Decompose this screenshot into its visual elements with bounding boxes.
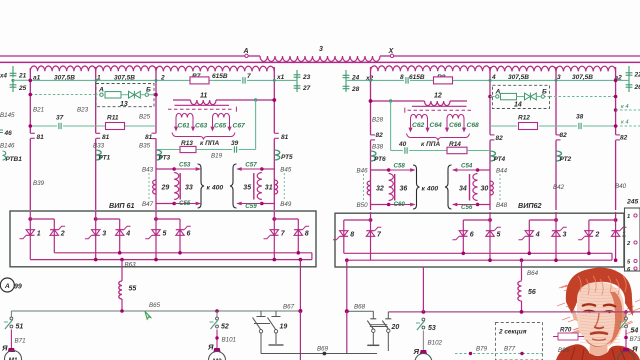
current transformer RT2 <box>556 151 561 161</box>
svg-text:к ППА: к ППА <box>200 140 219 147</box>
thyristor pair 5/6 (VIP61) <box>154 217 158 221</box>
svg-text:РТ1: РТ1 <box>99 155 111 162</box>
contact 81 on line 1 <box>96 132 101 134</box>
wire: drop to B63 <box>120 258 124 262</box>
svg-text:С66: С66 <box>449 122 462 129</box>
wire: snubber rail left half <box>30 79 190 81</box>
wire: section line 3 (RT2) <box>555 67 557 135</box>
contact 81 on line x1 <box>274 132 279 134</box>
wire: VIP61 anode rail <box>30 259 312 261</box>
svg-text:В102: В102 <box>428 340 443 347</box>
smoothing reactor 55 <box>121 280 123 283</box>
svg-text:8: 8 <box>350 232 354 239</box>
wire: 20 left contact to ground <box>372 332 374 344</box>
winding 2-x1 (secondary) <box>156 66 274 71</box>
svg-text:81: 81 <box>145 134 153 141</box>
svg-text:38: 38 <box>576 114 584 121</box>
thyristor 8 <box>294 229 302 231</box>
winding a1-1 (secondary) <box>30 66 95 71</box>
svg-text:81: 81 <box>37 134 45 141</box>
svg-text:615В: 615В <box>409 74 425 81</box>
svg-text:С65: С65 <box>214 123 227 130</box>
diode pair of element 13 <box>129 91 135 98</box>
current transformer RT4 <box>490 151 495 161</box>
thyristor 3 <box>92 230 100 236</box>
contact 82 on line 4 <box>490 134 495 136</box>
svg-text:В95: В95 <box>558 347 570 354</box>
wire: primary bus A-X (line 1) <box>0 55 245 57</box>
svg-text:R12: R12 <box>518 115 530 122</box>
smoothing reactor 56 <box>518 281 522 301</box>
group switch 20 <box>372 311 374 319</box>
node A 99 <box>0 278 14 292</box>
svg-text:к 4: к 4 <box>621 104 629 110</box>
transformer 12 core <box>412 105 467 107</box>
transformer 29/33 <box>153 180 156 194</box>
svg-text:35: 35 <box>243 184 251 191</box>
svg-text:В79: В79 <box>476 346 488 353</box>
switch 52 and motor M3 <box>216 311 218 317</box>
wire: 19 right contact to ground <box>275 333 277 344</box>
resistor of element 13 <box>105 92 121 98</box>
resistor of element 14 <box>501 93 517 99</box>
svg-text:82: 82 <box>620 135 628 142</box>
svg-text:39: 39 <box>231 140 239 147</box>
wire: drop to B68 <box>345 258 349 262</box>
svg-text:2: 2 <box>594 232 599 239</box>
svg-text:11: 11 <box>200 93 207 100</box>
current transformer RT6 <box>371 151 376 161</box>
svg-text:В46: В46 <box>357 168 369 175</box>
tap С53 <box>174 168 200 170</box>
svg-text:С54: С54 <box>461 163 473 170</box>
svg-text:В73: В73 <box>630 336 640 343</box>
svg-text:1: 1 <box>37 231 41 238</box>
wire: motor supply rail (left) <box>11 310 300 312</box>
svg-text:к 400: к 400 <box>207 185 224 192</box>
svg-text:В49: В49 <box>280 201 292 208</box>
svg-text:РТ4: РТ4 <box>494 156 506 163</box>
svg-text:Б: Б <box>542 88 547 95</box>
svg-text:53: 53 <box>428 325 436 332</box>
thyristor 6 <box>459 231 467 237</box>
VIP62 converter box <box>335 213 624 267</box>
svg-text:4: 4 <box>535 232 540 239</box>
switch 54 and motor <box>625 312 627 317</box>
svg-text:В47: В47 <box>142 201 154 208</box>
svg-text:4: 4 <box>125 231 130 238</box>
thyristor 2 <box>585 231 593 237</box>
switch 51 and motor M1 <box>10 311 12 317</box>
PPA windings left (C61..C67) <box>176 113 193 117</box>
svg-text:С56: С56 <box>461 204 473 211</box>
wire: 20 right contact down <box>387 332 389 351</box>
svg-text:23: 23 <box>302 74 311 81</box>
svg-text:В65: В65 <box>149 302 161 309</box>
wire: snubber rail right half <box>346 79 404 81</box>
svg-text:21: 21 <box>18 73 27 80</box>
terminal B of 14 <box>541 95 544 98</box>
svg-text:R70: R70 <box>560 327 572 334</box>
tap С57 <box>237 168 261 170</box>
svg-text:В68: В68 <box>354 304 366 311</box>
thyristor pair 5/6 (VIP62) <box>488 218 492 222</box>
svg-text:55: 55 <box>129 286 137 293</box>
thyristor 5 <box>152 230 160 236</box>
svg-text:82: 82 <box>496 135 504 142</box>
winding 4-3 (secondary) <box>490 66 556 71</box>
svg-text:46: 46 <box>4 130 13 137</box>
contact 82 on line x2 <box>371 134 376 136</box>
capacitor column 24/28 <box>345 70 347 92</box>
svg-text:В19: В19 <box>211 153 223 160</box>
thyristor 4 <box>116 229 124 231</box>
svg-text:28: 28 <box>351 86 360 93</box>
svg-text:В64: В64 <box>527 270 539 277</box>
transformer 35/31 <box>274 180 277 194</box>
svg-text:30: 30 <box>481 185 489 192</box>
watermark portrait <box>556 268 640 360</box>
wire: VIP61 cathode rail <box>54 252 312 254</box>
svg-text:В42: В42 <box>553 184 565 191</box>
svg-text:615В: 615В <box>212 73 228 80</box>
svg-text:20: 20 <box>391 324 400 331</box>
svg-text:В43: В43 <box>142 167 154 174</box>
dashed lead <box>363 174 365 201</box>
transformer 32/36 <box>367 181 370 195</box>
winding 3-a2 (secondary) <box>556 66 616 71</box>
svg-text:82: 82 <box>560 132 568 139</box>
svg-text:В45: В45 <box>280 167 292 174</box>
svg-text:В39: В39 <box>33 180 45 187</box>
element 14 dashed enclosure <box>493 85 550 108</box>
wire: VIP62 anode rail <box>347 259 612 261</box>
thyristor pair 7/8 (VIP61) <box>272 217 276 221</box>
wire: bus line 2 <box>0 61 640 63</box>
svg-text:к ППА: к ППА <box>421 141 440 148</box>
thyristor pair 1/2 (VIP61) <box>28 217 32 221</box>
svg-text:8: 8 <box>400 74 404 81</box>
svg-text:В40: В40 <box>615 183 627 190</box>
svg-text:6: 6 <box>187 231 191 238</box>
svg-text:В77: В77 <box>504 346 516 353</box>
svg-text:31: 31 <box>265 184 273 191</box>
svg-text:22: 22 <box>634 72 640 79</box>
svg-text:С68: С68 <box>467 122 480 129</box>
contact 81 on line a1 <box>30 132 35 134</box>
underbrace to PPA (left) <box>172 133 235 140</box>
svg-text:РТ3: РТ3 <box>159 155 171 162</box>
underbrace to PPA (right) <box>407 134 470 141</box>
terminal X <box>390 54 393 57</box>
svg-text:В69: В69 <box>317 346 329 353</box>
svg-text:36: 36 <box>400 185 408 192</box>
wire: VIP62 cathode rail <box>344 252 612 254</box>
svg-text:ВИП62: ВИП62 <box>518 201 542 210</box>
contact 82 on line a2 <box>616 134 621 136</box>
svg-text:2 секция: 2 секция <box>498 329 527 336</box>
svg-text:А: А <box>4 283 10 290</box>
dashed lead <box>283 173 285 200</box>
svg-text:А: А <box>495 88 501 95</box>
wire: section line x2 (RT6) <box>370 67 372 135</box>
svg-text:2: 2 <box>60 231 65 238</box>
tap С60 <box>389 204 415 206</box>
svg-text:54: 54 <box>631 328 639 335</box>
svg-text:3: 3 <box>102 231 106 238</box>
svg-text:1: 1 <box>627 214 630 220</box>
wire: 19 left contact to B69 line <box>260 333 262 354</box>
svg-text:В63: В63 <box>125 262 137 269</box>
wire: green riser to transformer 11 <box>255 100 257 150</box>
svg-text:В38: В38 <box>372 144 384 151</box>
wire: B67 drop continues <box>299 311 301 360</box>
dashed tap to 400 (lower) <box>616 125 640 127</box>
svg-text:R11: R11 <box>107 115 119 122</box>
current transformer RT5 <box>274 150 279 160</box>
contact 82 on line 3 <box>556 134 561 136</box>
svg-text:Я: Я <box>631 345 638 354</box>
svg-text:В48: В48 <box>496 202 508 209</box>
cursor arrow <box>145 312 151 320</box>
svg-text:С62: С62 <box>412 122 425 129</box>
svg-text:R13: R13 <box>181 140 193 147</box>
thyristor pair 3/4 (VIP62) <box>554 218 558 222</box>
svg-text:В145: В145 <box>0 112 15 119</box>
svg-text:32: 32 <box>376 185 384 192</box>
wire: drop to B67 <box>299 258 303 262</box>
svg-text:С59: С59 <box>245 203 257 210</box>
svg-text:56: 56 <box>528 289 536 296</box>
svg-text:245: 245 <box>626 199 639 206</box>
PPA windings right (C62..C68) <box>411 114 428 118</box>
element 13 dashed enclosure <box>96 84 154 107</box>
wire: dotted lead-in 13 <box>96 94 100 96</box>
wire: green rail left to a1 <box>13 79 30 81</box>
terminal A <box>245 54 248 57</box>
svg-text:В67: В67 <box>283 304 295 311</box>
dashed lead <box>499 174 501 201</box>
diode pair of element 14 <box>525 93 531 100</box>
svg-text:37: 37 <box>56 115 64 122</box>
thyristor 4 <box>525 231 533 237</box>
brace and label k 400 (left group) <box>198 164 205 208</box>
svg-text:7: 7 <box>247 73 251 80</box>
wire: section line a2 (RT...) <box>615 67 617 135</box>
svg-text:40: 40 <box>398 141 407 148</box>
dashed tap to 400 (upper) <box>614 108 618 112</box>
winding x2-4 (secondary) <box>371 66 491 71</box>
tap С54 <box>453 169 478 171</box>
svg-text:Я: Я <box>1 344 8 353</box>
tap С58 <box>389 169 415 171</box>
svg-text:к 4: к 4 <box>621 120 629 126</box>
svg-text:81: 81 <box>102 134 110 141</box>
wire: section line 2 (RT3) <box>155 67 157 133</box>
svg-text:3: 3 <box>563 232 567 239</box>
transformer 11 core <box>175 104 230 106</box>
wire: green riser to transformer 12 <box>390 101 392 151</box>
svg-text:3: 3 <box>319 46 323 53</box>
svg-text:26: 26 <box>634 84 640 91</box>
thyristor 1 <box>26 230 34 236</box>
svg-text:С57: С57 <box>245 162 257 169</box>
wire: section line 4 (RT4) <box>489 67 491 135</box>
svg-text:12: 12 <box>434 93 442 100</box>
wire: dotted lead-out 14 <box>545 96 550 98</box>
svg-text:52: 52 <box>221 324 229 331</box>
thyristor pair 7/8 (VIP62) <box>369 218 373 222</box>
VIP61 converter box <box>10 211 316 267</box>
svg-text:В50: В50 <box>357 202 369 209</box>
thyristor pair 3/4 (VIP61) <box>94 217 98 221</box>
svg-text:19: 19 <box>280 324 288 331</box>
svg-text:РТ2: РТ2 <box>560 156 572 163</box>
svg-text:В28: В28 <box>372 117 384 124</box>
svg-text:А: А <box>98 87 104 94</box>
svg-text:С55: С55 <box>179 200 191 207</box>
svg-text:51: 51 <box>16 324 24 331</box>
svg-text:6: 6 <box>470 232 474 239</box>
svg-text:В25: В25 <box>139 114 151 121</box>
svg-text:В101: В101 <box>222 337 236 344</box>
group switch 19 <box>260 311 262 317</box>
switch 53 and motor <box>422 267 424 312</box>
wire: drop to B64 <box>520 258 524 262</box>
svg-text:В71: В71 <box>15 338 26 345</box>
svg-text:х4: х4 <box>0 73 7 80</box>
thyristor 7 <box>270 230 278 236</box>
winding 3 (primary of traction transformer) <box>260 56 380 61</box>
svg-text:25: 25 <box>18 85 27 92</box>
svg-text:14: 14 <box>514 102 522 109</box>
svg-text:А: А <box>242 48 248 55</box>
transformer 34/30 <box>490 181 493 195</box>
winding 1-2 (secondary) <box>96 66 156 71</box>
terminal B of 13 <box>145 93 148 96</box>
wire: section line 1 (RT1) <box>95 67 97 133</box>
thyristor 6 <box>176 229 184 231</box>
svg-text:В146: В146 <box>0 143 15 150</box>
wire: section line x1 (RT5) <box>273 67 275 133</box>
svg-text:В23: В23 <box>77 107 89 114</box>
wire: dashed link 14 to a2 <box>550 96 616 98</box>
dashed lead <box>148 173 150 200</box>
2nd section dashed box <box>496 323 543 360</box>
thyristor 7 <box>366 230 374 232</box>
svg-text:В35: В35 <box>139 143 151 150</box>
svg-text:В21: В21 <box>33 107 44 114</box>
wire: damping line left (37, R11) <box>30 125 57 127</box>
wire: B68 drop continues <box>346 311 348 353</box>
capacitor column 22/26 at right edge <box>628 66 630 92</box>
wire: motor supply rail (right) <box>347 310 374 312</box>
wire: dashed link a1 to element 13 <box>30 94 96 96</box>
tap С55 <box>174 203 200 205</box>
brace and label k 400 (right group) <box>413 165 420 209</box>
svg-text:С64: С64 <box>430 122 443 129</box>
svg-text:81: 81 <box>281 134 289 141</box>
svg-text:5: 5 <box>163 231 167 238</box>
svg-text:82: 82 <box>376 132 384 139</box>
tap С56 <box>453 204 478 206</box>
svg-text:к 400: к 400 <box>422 186 439 193</box>
capacitor column x4 (21/25) at left <box>12 66 14 78</box>
svg-text:РТ6: РТ6 <box>374 156 386 163</box>
svg-text:Я: Я <box>207 343 214 352</box>
thyristor 2 <box>50 229 58 231</box>
wire: damping line right (R12, 38) <box>490 125 517 127</box>
svg-text:Б: Б <box>146 87 151 94</box>
wire: section line a1 <box>29 68 31 133</box>
svg-text:27: 27 <box>302 85 311 92</box>
svg-text:5: 5 <box>497 232 501 239</box>
svg-text:РТ5: РТ5 <box>281 154 293 161</box>
capacitor column 23/27 <box>296 70 298 92</box>
thyristor 5 <box>486 230 494 232</box>
svg-text:34: 34 <box>459 185 467 192</box>
svg-text:8: 8 <box>305 231 309 238</box>
svg-text:С63: С63 <box>195 123 208 130</box>
svg-text:С53: С53 <box>179 162 191 169</box>
thyristor 8 <box>340 231 348 237</box>
svg-text:В44: В44 <box>496 168 508 175</box>
svg-text:С58: С58 <box>394 163 406 170</box>
svg-text:13: 13 <box>120 101 128 108</box>
contact 81 on line 2 <box>152 132 157 134</box>
svg-text:С67: С67 <box>233 123 246 130</box>
svg-text:РТВ1: РТВ1 <box>6 156 23 163</box>
current transformer RT3 <box>156 150 161 160</box>
wire: dashed B79-B77 <box>455 353 545 355</box>
wire: rail crossing watermark <box>584 311 640 313</box>
svg-text:С60: С60 <box>394 201 406 208</box>
svg-text:99: 99 <box>14 284 22 291</box>
tap С59 <box>237 203 261 205</box>
svg-text:В33: В33 <box>93 143 105 150</box>
svg-text:С61: С61 <box>178 123 191 130</box>
svg-text:29: 29 <box>161 184 170 191</box>
current transformer RT1 <box>96 150 101 160</box>
svg-text:ВИП 61: ВИП 61 <box>109 201 135 210</box>
thyristor 3 <box>552 230 560 232</box>
thyristor 1 <box>611 230 619 232</box>
thyristor pair 1/2 (VIP62) <box>614 218 618 222</box>
svg-text:33: 33 <box>185 184 193 191</box>
